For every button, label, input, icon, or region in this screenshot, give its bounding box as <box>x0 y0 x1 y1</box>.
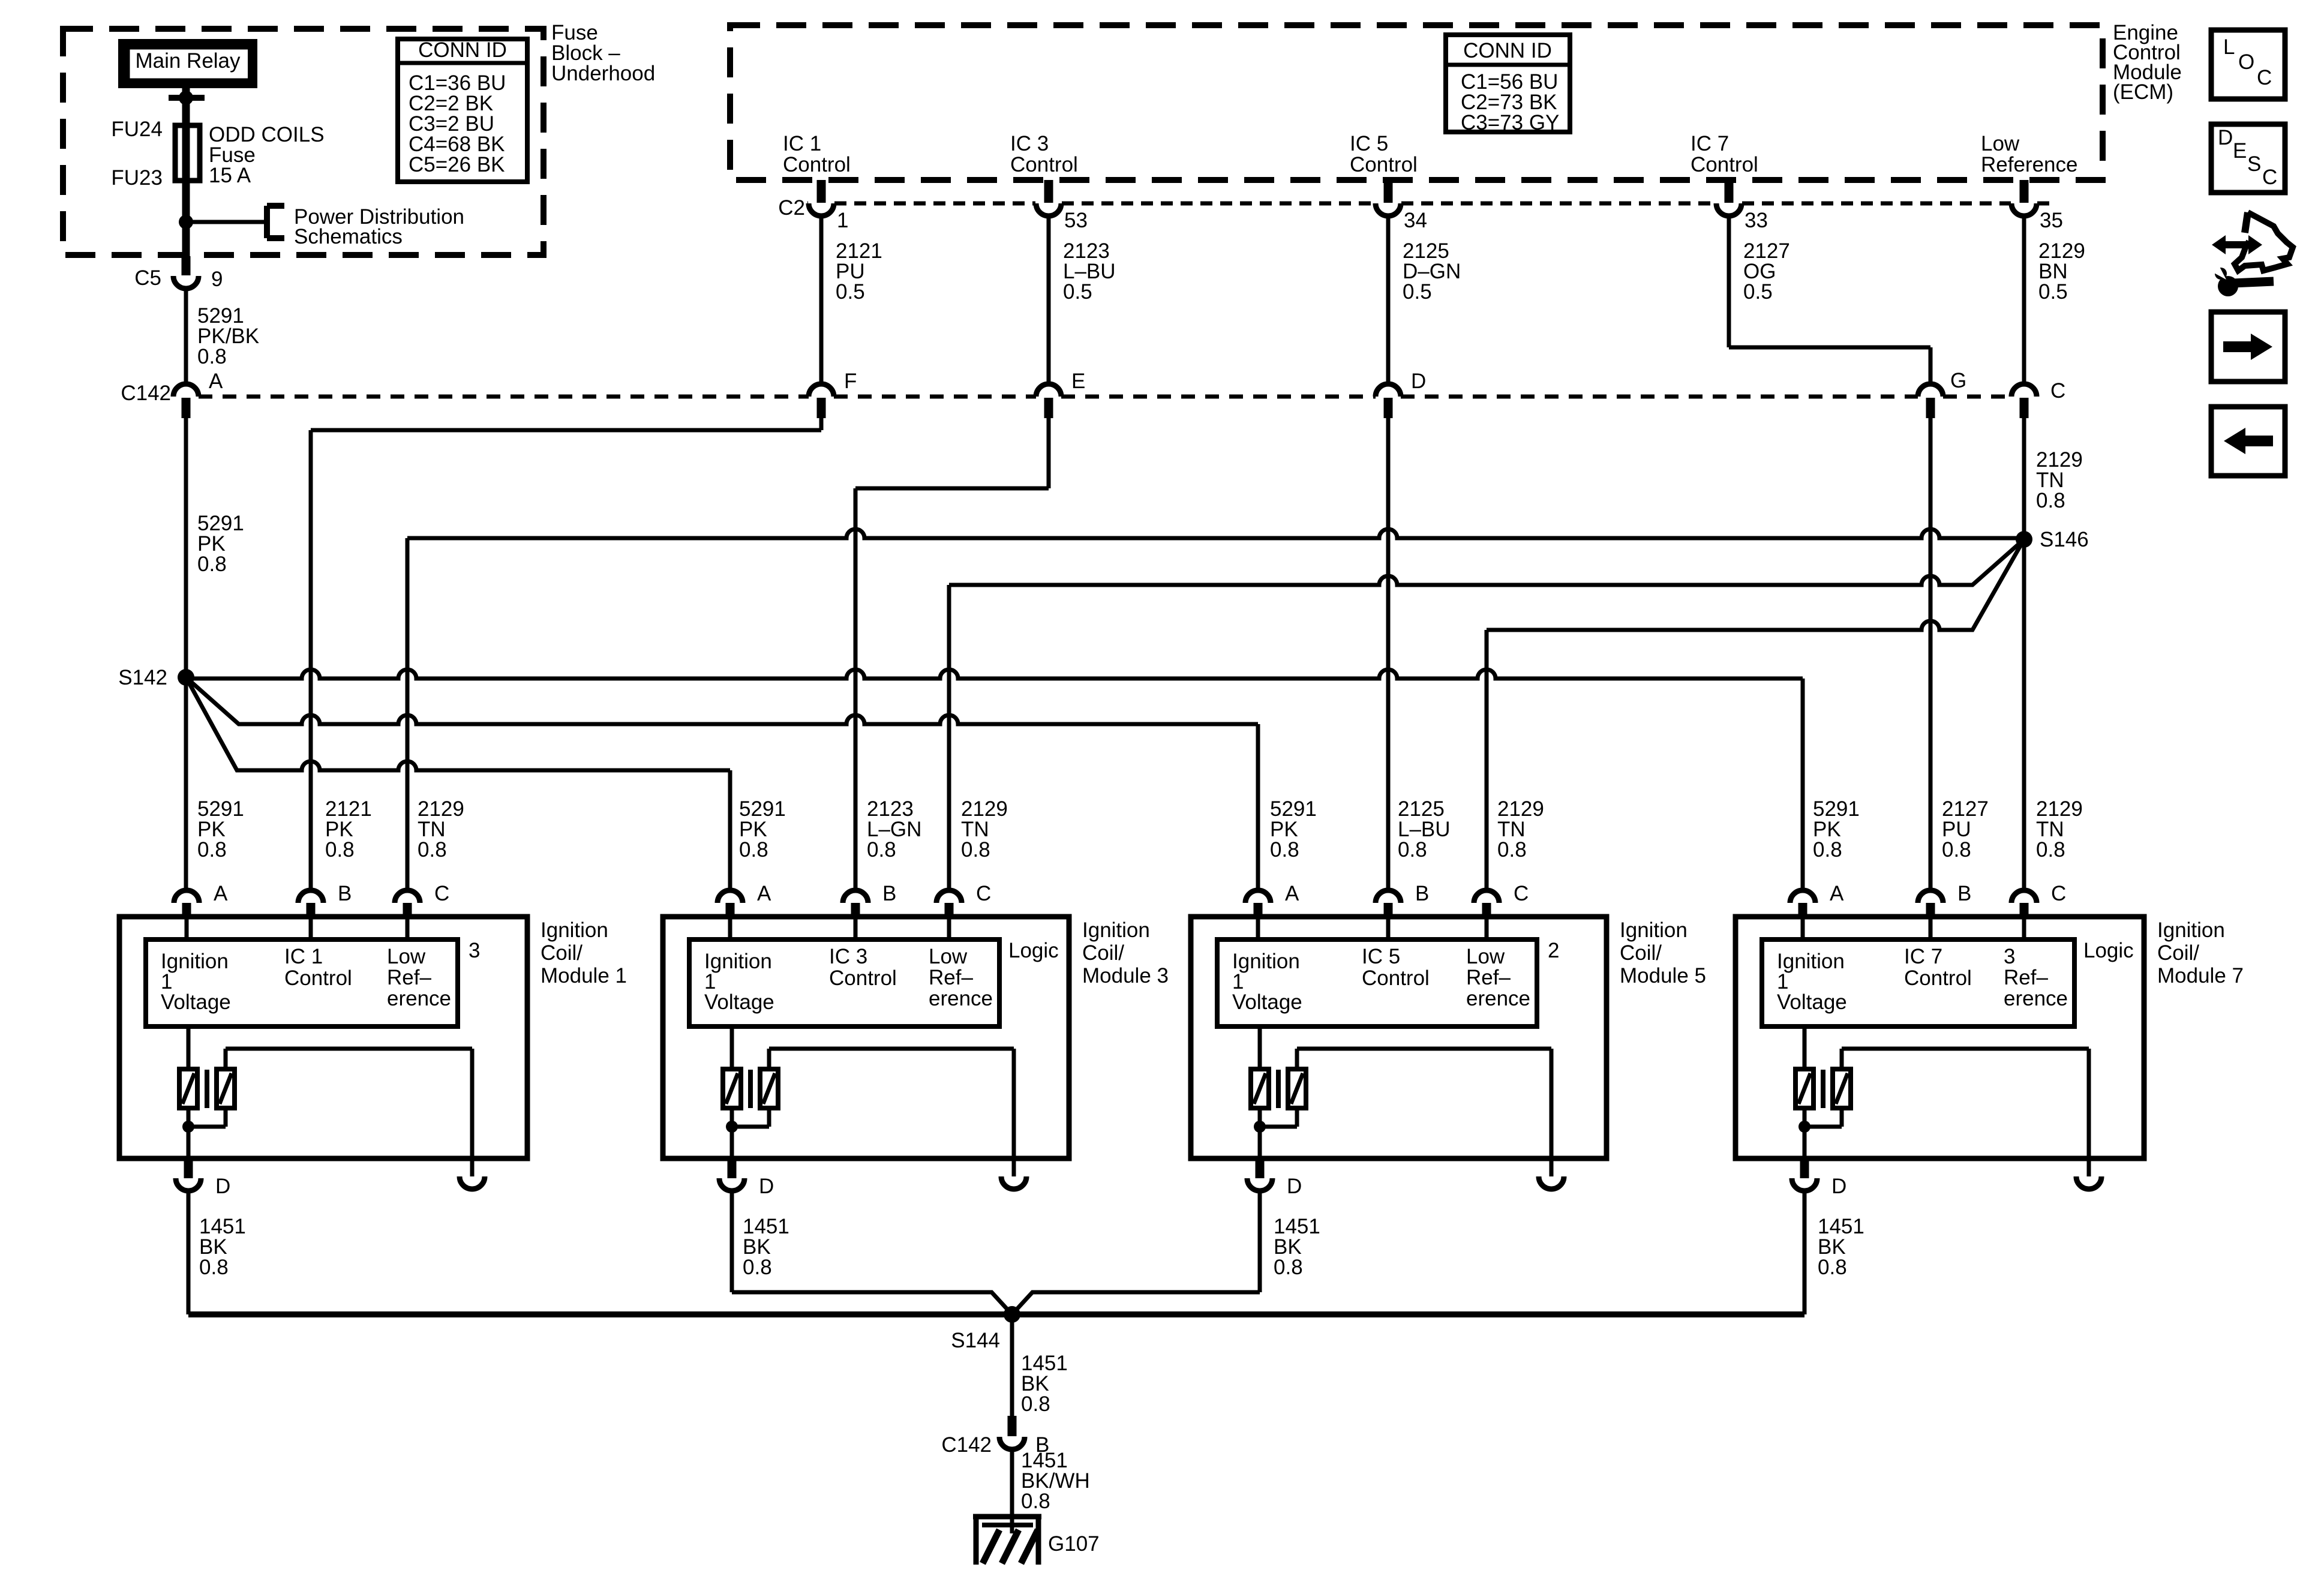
svg-text:0.5: 0.5 <box>2038 280 2068 304</box>
svg-text:Ref–: Ref– <box>1466 966 1511 989</box>
coil module 1 inner box <box>146 939 458 1026</box>
svg-text:33: 33 <box>1744 209 1768 232</box>
svg-text:erence: erence <box>387 987 451 1010</box>
svg-text:2: 2 <box>1548 939 1559 962</box>
svg-text:35: 35 <box>2040 209 2063 232</box>
svg-text:0.5: 0.5 <box>836 280 865 304</box>
svg-text:A: A <box>1285 882 1299 905</box>
ECM label <box>2113 21 2182 104</box>
icon DESC box <box>2211 124 2285 193</box>
svg-text:34: 34 <box>1404 209 1427 232</box>
svg-text:0.8: 0.8 <box>418 838 447 861</box>
svg-text:0.8: 0.8 <box>1270 838 1299 861</box>
svg-text:erence: erence <box>1466 987 1530 1010</box>
coil module 7 pin C <box>2011 882 2066 918</box>
svg-text:Control: Control <box>1691 153 1758 176</box>
svg-text:(ECM): (ECM) <box>2113 80 2173 104</box>
svg-text:0.5: 0.5 <box>1063 280 1092 304</box>
svg-text:Control: Control <box>829 966 897 990</box>
coil module 3 secondary top wire <box>769 1049 1014 1158</box>
ECM output IC 1 Control <box>783 132 851 176</box>
svg-text:Control: Control <box>284 966 352 990</box>
svg-text:Control: Control <box>1010 153 1078 176</box>
relay K: Main Relay <box>123 44 253 83</box>
svg-text:Ref–: Ref– <box>2004 966 2048 989</box>
ignition coil/module 1 name <box>541 918 627 987</box>
wire 2129 TN (S146 down to coil 7 C) <box>2022 539 2026 890</box>
svg-text:0.8: 0.8 <box>1021 1392 1050 1416</box>
label 2125 L-BU 0.8 (coil5 B) <box>1398 797 1451 861</box>
svg-text:Ref–: Ref– <box>387 966 431 989</box>
wire 1451 BK 0.8 (S144 to C142 B) <box>1012 1314 1068 1416</box>
svg-text:B: B <box>338 882 352 905</box>
wire 2121 PK 0.8 (F to coil 1 B) <box>311 418 821 890</box>
coil module 3 secondary winding <box>760 1069 778 1108</box>
coil module 1 secondary top wire <box>226 1049 472 1158</box>
ECM output IC 3 Control <box>1010 132 1078 176</box>
wire 5291 PK (S142 down to coil 1 A) <box>184 677 188 890</box>
fuse block label <box>551 21 655 85</box>
svg-text:Module 7: Module 7 <box>2157 964 2244 987</box>
svg-text:C5=26 BK: C5=26 BK <box>409 153 505 176</box>
coil module 5 winding junction <box>1254 1108 1297 1158</box>
svg-text:C: C <box>2257 66 2272 89</box>
node power distribution tap <box>179 215 267 229</box>
coil module 5 label Low Reference <box>1466 945 1530 1010</box>
node relay output <box>169 91 205 105</box>
coil module 5 terminal number 2 <box>1548 939 1559 962</box>
coil module 7 primary feed wire <box>1803 1026 1807 1069</box>
connector C5 pin 9 <box>134 256 223 291</box>
svg-text:0.8: 0.8 <box>2036 489 2065 512</box>
coil module 3 pin B <box>843 882 896 918</box>
svg-text:D: D <box>2218 126 2233 149</box>
coil module 7 label Low Reference <box>2004 945 2068 1010</box>
svg-text:Ref–: Ref– <box>929 966 973 989</box>
ECM pin 1 <box>809 180 848 232</box>
svg-text:B: B <box>1957 882 1971 905</box>
C142 pin F <box>809 370 857 418</box>
coil module 5 pin wires into logic <box>1258 918 1487 939</box>
svg-text:C5: C5 <box>134 266 161 290</box>
coil module 5 label IC 5 Control <box>1362 945 1430 990</box>
coil module 7 pin A <box>1790 882 1844 918</box>
svg-text:3: 3 <box>2004 945 2015 968</box>
coil module 3 secondary pin <box>1001 1158 1026 1189</box>
coil module 5 pin C <box>1474 882 1529 918</box>
coil module 7 winding junction <box>1798 1108 1842 1158</box>
coil module 7 primary winding <box>1795 1069 1813 1108</box>
wire 5291 PK (S142 to coil 3 A) <box>186 677 730 890</box>
svg-text:C2: C2 <box>778 196 805 220</box>
svg-text:1: 1 <box>837 209 848 232</box>
label 2129 TN 0.8 (coil1 C) <box>418 797 464 861</box>
svg-text:D: D <box>1411 370 1426 393</box>
svg-text:O: O <box>2238 50 2254 74</box>
coil module 1 label IC 1 Control <box>284 945 352 990</box>
svg-text:C: C <box>976 882 991 905</box>
ignition coil/module 7 name <box>2157 918 2244 987</box>
svg-text:IC 3: IC 3 <box>829 945 867 968</box>
coil module 5 core <box>1276 1070 1281 1108</box>
svg-text:0.8: 0.8 <box>325 838 355 861</box>
svg-text:0.8: 0.8 <box>2036 838 2065 861</box>
svg-text:Underhood: Underhood <box>551 62 655 85</box>
svg-text:Control: Control <box>1350 153 1418 176</box>
svg-text:Low: Low <box>929 945 968 968</box>
svg-text:C: C <box>2051 882 2066 905</box>
C142 pin C <box>2011 379 2065 418</box>
svg-text:A: A <box>214 882 228 905</box>
label 5291 PK 0.8 (coil3 A) <box>739 797 786 861</box>
coil module 3 label Ignition 1 Voltage <box>704 950 774 1014</box>
wire 2125 D-GN 0.5 <box>1388 216 1461 384</box>
svg-text:A: A <box>209 370 223 393</box>
svg-text:B: B <box>1415 882 1429 905</box>
svg-text:IC 1: IC 1 <box>284 945 323 968</box>
ignition coil/module 3 box <box>663 917 1069 1158</box>
svg-text:S: S <box>2247 152 2261 176</box>
svg-text:Control: Control <box>783 153 851 176</box>
coil module 3 winding junction <box>726 1108 769 1158</box>
C142 pin E <box>1036 370 1085 418</box>
ECM pin 34 <box>1376 180 1427 232</box>
coil module 1 secondary pin <box>460 1158 485 1189</box>
svg-text:Logic: Logic <box>2083 939 2134 962</box>
coil module 5 primary winding <box>1251 1069 1269 1108</box>
label 2123 L-GN 0.8 (coil3 B) <box>867 797 921 861</box>
svg-text:0.8: 0.8 <box>197 345 227 368</box>
ECM output IC 7 Control <box>1691 132 1758 176</box>
coil module 5 pin A <box>1245 882 1299 918</box>
coil module 7 inner box <box>1762 939 2074 1026</box>
svg-text:0.8: 0.8 <box>197 553 227 576</box>
svg-text:A: A <box>757 882 771 905</box>
icon arrow right box <box>2211 312 2285 382</box>
svg-text:E: E <box>2233 139 2247 163</box>
coil module 3 primary feed wire <box>730 1026 734 1069</box>
wire 1451 BK (coil7 D down) <box>1804 1191 1864 1314</box>
coil module 3 label Logic <box>1008 939 1059 962</box>
svg-text:IC 1: IC 1 <box>783 132 821 155</box>
svg-text:Schematics: Schematics <box>294 225 403 248</box>
svg-text:0.8: 0.8 <box>961 838 990 861</box>
svg-text:3: 3 <box>469 939 480 962</box>
coil module 5 label Ignition 1 Voltage <box>1232 950 1302 1014</box>
svg-text:F: F <box>844 370 857 393</box>
label 2127 PU 0.8 (coil7 B) <box>1942 797 1989 861</box>
ignition coil/module 1 box <box>119 917 527 1158</box>
CONN ID table (ECM) <box>1446 35 1570 134</box>
wire 1451 BK (coil5 D down) <box>1012 1191 1320 1314</box>
coil module 1 pin B <box>298 882 352 918</box>
ignition coil/module 3 name <box>1082 918 1169 987</box>
svg-text:Module 3: Module 3 <box>1082 964 1169 987</box>
svg-text:0.5: 0.5 <box>1403 280 1432 304</box>
coil module 7 label Logic <box>2083 939 2134 962</box>
CONN ID table (fuse block) <box>398 38 527 182</box>
wire 2129 BN 0.5 <box>2024 216 2085 384</box>
coil module 1 terminal number 3 <box>469 939 480 962</box>
svg-text:D: D <box>215 1175 230 1198</box>
ground G107 <box>973 1517 1100 1565</box>
wire 2129 TN (S146 to coil 1 C) <box>407 529 2024 890</box>
label 5291 PK 0.8 (coil5 A) <box>1270 797 1317 861</box>
svg-text:0.8: 0.8 <box>743 1256 772 1279</box>
coil module 1 core <box>205 1070 209 1108</box>
svg-text:0.8: 0.8 <box>867 838 896 861</box>
svg-text:0.8: 0.8 <box>1274 1256 1303 1279</box>
svg-text:IC 5: IC 5 <box>1362 945 1400 968</box>
coil module 7 secondary top wire <box>1842 1049 2089 1158</box>
svg-text:Logic: Logic <box>1008 939 1059 962</box>
svg-text:Main Relay: Main Relay <box>135 49 241 73</box>
svg-text:G107: G107 <box>1048 1532 1100 1556</box>
svg-text:C142: C142 <box>941 1433 992 1457</box>
wire relay to fuse <box>182 88 190 127</box>
coil module 7 pin wires into logic <box>1803 918 2024 939</box>
coil module 3 core <box>748 1070 753 1108</box>
svg-text:0.8: 0.8 <box>1818 1256 1847 1279</box>
wire 2121 PU 0.5 <box>821 216 882 384</box>
wire 2123 L-GN 0.8 (E to coil 3 B) <box>855 418 1049 890</box>
svg-text:Low: Low <box>1981 132 2020 155</box>
svg-text:C: C <box>2050 379 2065 403</box>
connector C142 pin B <box>941 1416 1049 1457</box>
svg-text:D: D <box>759 1175 774 1198</box>
svg-text:FU24: FU24 <box>111 118 163 141</box>
svg-text:B: B <box>882 882 896 905</box>
ground bus wire <box>188 1311 1804 1317</box>
wire 5291 PK (S142 to coil 7 A) <box>186 670 1803 890</box>
coil module 3 inner box <box>689 939 999 1026</box>
svg-text:S142: S142 <box>118 666 167 689</box>
svg-text:Low: Low <box>387 945 426 968</box>
coil module 7 secondary winding <box>1833 1069 1851 1108</box>
coil module 1 secondary winding <box>217 1069 235 1108</box>
svg-text:Ignition: Ignition <box>541 918 608 942</box>
coil module 1 pin A <box>174 882 228 918</box>
svg-text:0.8: 0.8 <box>1813 838 1842 861</box>
C142 pin D <box>1376 370 1426 418</box>
svg-text:erence: erence <box>2004 987 2068 1010</box>
wire 2125 L-BU 0.8 (D to coil 5 B) <box>1386 418 1391 890</box>
ECM connector row C2 (dotted) <box>778 196 2052 220</box>
svg-text:Reference: Reference <box>1981 153 2077 176</box>
coil module 7 pin D <box>1792 1160 1846 1198</box>
fuse block underhood (dashed box) <box>63 29 544 255</box>
coil module 1 label Low Reference <box>387 945 451 1010</box>
svg-text:15 A: 15 A <box>209 164 251 187</box>
wire 1451 BK/WH 0.8 (C142 B to ground) <box>1012 1449 1090 1533</box>
svg-text:Control: Control <box>1904 966 1972 990</box>
label 2121 PK 0.8 (coil1 B) <box>325 797 372 861</box>
coil module 5 secondary pin <box>1539 1158 1564 1189</box>
svg-text:Coil/: Coil/ <box>541 941 582 965</box>
label 2129 TN 0.8 (coil5 C) <box>1497 797 1544 861</box>
svg-text:Voltage: Voltage <box>1232 990 1302 1014</box>
svg-text:Ignition: Ignition <box>1082 918 1150 942</box>
svg-text:L: L <box>2223 35 2235 59</box>
svg-text:erence: erence <box>929 987 993 1010</box>
svg-text:0.8: 0.8 <box>739 838 768 861</box>
svg-text:53: 53 <box>1064 209 1088 232</box>
splice S142 <box>118 666 194 689</box>
svg-text:G: G <box>1950 369 1966 392</box>
svg-text:IC 7: IC 7 <box>1691 132 1729 155</box>
power distribution bracket <box>267 205 464 248</box>
svg-text:Ignition: Ignition <box>2157 918 2225 942</box>
coil module 3 pin D <box>719 1160 774 1198</box>
svg-text:0.5: 0.5 <box>1743 280 1773 304</box>
svg-text:9: 9 <box>211 268 223 291</box>
svg-text:C: C <box>2262 166 2277 189</box>
label 2129 TN 0.8 (coil3 C) <box>961 797 1008 861</box>
wire 2129 TN (S146 to coil 5 C) <box>1487 539 2024 890</box>
svg-text:C: C <box>434 882 449 905</box>
coil module 5 secondary winding <box>1288 1069 1306 1108</box>
wire 2129 TN (S146 to coil 3 C) <box>949 539 2024 890</box>
svg-text:S144: S144 <box>951 1329 1000 1352</box>
svg-text:Coil/: Coil/ <box>1620 941 1662 965</box>
wire 5291 PK (S142 to coil 5 A) <box>186 677 1258 890</box>
ignition coil/module 5 name <box>1620 918 1706 987</box>
ignition coil/module 5 box <box>1191 917 1607 1158</box>
svg-text:A: A <box>1830 882 1844 905</box>
coil module 7 label IC 7 Control <box>1904 945 1972 990</box>
C142 pin G <box>1918 369 1966 418</box>
svg-text:0.8: 0.8 <box>1398 838 1427 861</box>
ECM pin 33 <box>1716 180 1768 232</box>
svg-text:Low: Low <box>1466 945 1505 968</box>
svg-text:0.8: 0.8 <box>199 1256 229 1279</box>
label 2129 TN 0.8 (coil7 C) <box>2036 797 2083 861</box>
coil module 5 secondary top wire <box>1297 1049 1551 1158</box>
wire 2127 OG 0.5 <box>1729 216 1930 384</box>
svg-text:D: D <box>1831 1175 1846 1198</box>
wire 2123 L-BU 0.5 <box>1049 216 1116 384</box>
svg-text:CONN ID: CONN ID <box>1463 39 1552 62</box>
coil module 3 pin A <box>717 882 771 918</box>
ECM pin 35 <box>2011 180 2063 232</box>
svg-text:Voltage: Voltage <box>161 990 231 1014</box>
svg-text:Coil/: Coil/ <box>2157 941 2199 965</box>
splice S146 <box>2016 528 2089 551</box>
coil module 7 label Ignition 1 Voltage <box>1777 950 1847 1014</box>
wire 2129 TN 0.8 (C to S146) <box>2024 418 2083 539</box>
coil module 3 label IC 3 Control <box>829 945 897 990</box>
svg-text:0.8: 0.8 <box>197 838 227 861</box>
svg-text:E: E <box>1071 370 1085 393</box>
svg-text:IC 5: IC 5 <box>1350 132 1388 155</box>
coil module 3 label Low Reference <box>929 945 993 1010</box>
coil module 1 primary feed wire <box>187 1026 191 1069</box>
connector C142 (dashed inline row) <box>121 382 2011 405</box>
coil module 7 core <box>1821 1070 1825 1108</box>
wire 5291 PK/BK 0.8 <box>186 289 259 384</box>
ECM output Low Reference <box>1981 132 2077 176</box>
svg-text:Coil/: Coil/ <box>1082 941 1124 965</box>
svg-text:IC 3: IC 3 <box>1010 132 1049 155</box>
coil module 5 pin D <box>1247 1160 1302 1198</box>
wire 1451 BK (coil3 D down) <box>732 1191 1012 1314</box>
label 5291 PK 0.8 (coil7 A) <box>1813 797 1860 861</box>
ECM output IC 5 Control <box>1350 132 1418 176</box>
svg-text:Voltage: Voltage <box>704 990 774 1014</box>
icon arrow left box <box>2211 407 2285 476</box>
wire 2127 PU 0.8 (G to coil 7 B) <box>1929 418 1933 890</box>
coil module 3 pin wires into logic <box>730 918 949 939</box>
icon wrench with arrows <box>2212 212 2293 296</box>
icon LOC box <box>2211 30 2285 99</box>
fuse FU24/FU23 ODD COILS 15A <box>111 118 324 190</box>
svg-text:Control: Control <box>1362 966 1430 990</box>
wire 1451 BK (coil1 D down) <box>188 1191 246 1314</box>
coil module 1 pin C <box>395 882 449 918</box>
svg-text:S146: S146 <box>2040 528 2089 551</box>
svg-text:0.8: 0.8 <box>1021 1490 1050 1513</box>
svg-text:C142: C142 <box>121 382 171 405</box>
coil module 5 inner box <box>1217 939 1537 1026</box>
svg-text:0.8: 0.8 <box>1942 838 1971 861</box>
coil module 7 pin B <box>1918 882 1971 918</box>
coil module 1 winding junction <box>182 1108 226 1158</box>
ECM pin 53 <box>1036 180 1088 232</box>
svg-text:FU23: FU23 <box>111 166 163 190</box>
svg-text:0.8: 0.8 <box>1497 838 1527 861</box>
coil module 1 label Ignition 1 Voltage <box>161 950 231 1014</box>
splice S144 <box>951 1306 1020 1352</box>
svg-text:Ignition: Ignition <box>1620 918 1688 942</box>
coil module 3 pin C <box>936 882 991 918</box>
coil module 1 primary winding <box>179 1069 197 1108</box>
svg-text:C3=73 GY: C3=73 GY <box>1461 111 1559 134</box>
ignition coil/module 7 box <box>1736 917 2144 1158</box>
coil module 1 pin wires into logic <box>187 918 407 939</box>
svg-text:Module 5: Module 5 <box>1620 964 1706 987</box>
coil module 5 pin B <box>1376 882 1429 918</box>
ECM dashed box (Engine Control Module) <box>730 25 2103 180</box>
coil module 7 secondary pin <box>2076 1158 2101 1189</box>
wire 5291 PK 0.8 (C142 A to S142) <box>186 418 244 677</box>
svg-text:C: C <box>1514 882 1529 905</box>
svg-text:D: D <box>1287 1175 1302 1198</box>
svg-text:Voltage: Voltage <box>1777 990 1847 1014</box>
svg-text:CONN ID: CONN ID <box>418 38 507 62</box>
coil module 1 pin D <box>176 1160 230 1198</box>
label 5291 PK 0.8 (coil1 A) <box>197 797 244 861</box>
wire fuse to C5 <box>182 125 190 256</box>
svg-text:Module 1: Module 1 <box>541 964 627 987</box>
svg-text:IC 7: IC 7 <box>1904 945 1942 968</box>
coil module 3 primary winding <box>723 1069 741 1108</box>
C142 pin A <box>173 370 223 418</box>
coil module 5 primary feed wire <box>1258 1026 1262 1069</box>
